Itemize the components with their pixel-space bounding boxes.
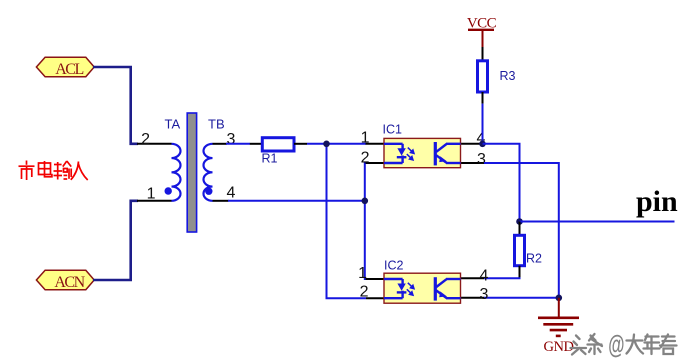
connector ACN xyxy=(36,270,94,291)
wire R3 to junction C xyxy=(482,104,484,144)
transformer core xyxy=(187,113,196,232)
transformer polarity dot TA xyxy=(165,187,172,194)
svg-text:2: 2 xyxy=(360,284,369,301)
wire IC2 pin 3 to junction E xyxy=(484,297,559,299)
transformer pin 4 xyxy=(213,200,229,202)
svg-text:ACN: ACN xyxy=(54,274,85,291)
IC2 pin stubs xyxy=(366,278,485,298)
IC2 phototransistor xyxy=(435,277,460,300)
resistor R2 xyxy=(515,222,543,279)
svg-text:TB: TB xyxy=(208,117,225,132)
wire transformer pin 3 to R1 xyxy=(226,143,250,145)
svg-text:2: 2 xyxy=(361,150,370,167)
wire R1 to junction A xyxy=(307,143,327,145)
wire node D to pin label xyxy=(520,221,675,223)
junction E xyxy=(556,295,563,302)
svg-text:IC1: IC1 xyxy=(383,123,403,137)
ground GND xyxy=(538,298,579,355)
svg-text:GND: GND xyxy=(544,339,574,355)
power VCC xyxy=(467,16,497,48)
svg-text:IC2: IC2 xyxy=(384,259,404,273)
wire IC1 pin 2 down to IC2 pin 1 xyxy=(365,163,366,279)
wire junction A down to IC2 pin 2 xyxy=(327,144,367,298)
op-to IC1 pin stubs xyxy=(366,144,485,163)
wire ACN to transformer pin 1 xyxy=(93,201,138,280)
wire ACL to transformer pin 2 xyxy=(93,67,138,144)
watermark 头条@大年君 xyxy=(571,334,603,355)
connector ACL xyxy=(36,57,94,78)
transformer winding TA xyxy=(172,144,181,201)
svg-text:R3: R3 xyxy=(500,69,516,83)
IC1 phototransistor xyxy=(435,142,460,165)
svg-text:3: 3 xyxy=(480,286,489,303)
wire IC1 pin 4 to node D xyxy=(483,144,520,222)
transformer polarity dot TB xyxy=(205,188,212,195)
svg-text:1: 1 xyxy=(361,130,370,147)
svg-text:TA: TA xyxy=(165,117,181,132)
transformer pin 3 xyxy=(213,143,228,145)
svg-text:1: 1 xyxy=(147,186,156,203)
transformer pin 2 xyxy=(137,143,172,145)
IC1 light arrows xyxy=(407,148,414,160)
wire transformer pin 4 to node B xyxy=(228,200,365,202)
optocoupler IC2 xyxy=(384,259,461,304)
wire junction A to IC1 pin 1 xyxy=(327,143,367,145)
label 市电输入 xyxy=(19,161,88,181)
svg-text:3: 3 xyxy=(477,151,486,168)
optocoupler IC1 xyxy=(383,123,461,168)
svg-text:R1: R1 xyxy=(262,152,278,166)
IC1 LED xyxy=(384,144,406,163)
wire IC1 pin 3 down to node E xyxy=(484,163,559,298)
wire R2 to IC2 pin 4 xyxy=(484,277,521,279)
svg-text:pin: pin xyxy=(636,185,678,218)
svg-text:1: 1 xyxy=(358,265,367,282)
svg-text:2: 2 xyxy=(141,131,150,148)
resistor R1 xyxy=(250,138,307,166)
svg-text:3: 3 xyxy=(227,131,236,148)
svg-text:ACL: ACL xyxy=(55,61,83,78)
junction C xyxy=(479,141,486,148)
junction A xyxy=(323,141,330,148)
IC2 LED xyxy=(384,279,406,298)
junction B xyxy=(362,198,369,205)
svg-text:@: @ xyxy=(608,329,624,359)
transformer winding TB xyxy=(204,144,213,201)
junction D xyxy=(516,218,523,225)
resistor R3 xyxy=(478,47,516,104)
svg-text:R2: R2 xyxy=(526,252,542,266)
svg-text:4: 4 xyxy=(480,268,489,285)
IC2 light arrows xyxy=(407,283,414,295)
transformer pin 1 xyxy=(137,200,172,202)
svg-text:4: 4 xyxy=(227,185,236,202)
